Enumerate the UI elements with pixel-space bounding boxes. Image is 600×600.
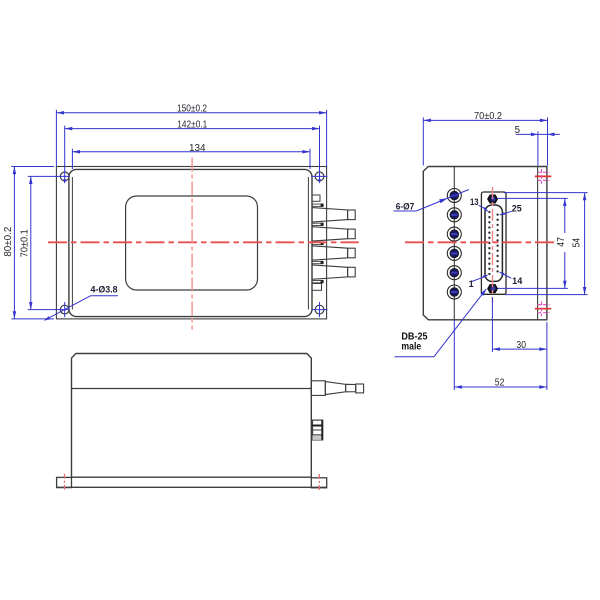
- blue centermark crosses on holes: [28, 126, 328, 318]
- top view main body outline: [69, 169, 312, 316]
- svg-text:4-Ø3.8: 4-Ø3.8: [91, 285, 118, 295]
- svg-text:70±0.1: 70±0.1: [19, 229, 30, 257]
- svg-text:14: 14: [512, 276, 522, 286]
- svg-text:134: 134: [189, 143, 206, 154]
- vertical red centerline top view: [191, 158, 193, 330]
- dimension 5 (wall): [516, 131, 560, 165]
- svg-text:6-Ø7: 6-Ø7: [396, 201, 414, 211]
- body left inner wall line: [71, 177, 73, 310]
- svg-text:80±0.2: 80±0.2: [3, 227, 14, 257]
- svg-text:1: 1: [469, 279, 474, 289]
- dimension 70±0.1: [30, 176, 32, 309]
- side view lid parting line: [72, 388, 312, 390]
- svg-text:54: 54: [571, 237, 582, 247]
- small down arrows at 142 extension ends: [63, 179, 66, 184]
- side view body outline: [72, 354, 312, 478]
- side view left foot: [57, 477, 72, 487]
- end view right wall inner line: [537, 167, 539, 320]
- fiber adapter tab 2: [312, 227, 355, 241]
- mounting hole bottom-left: [60, 305, 69, 314]
- fiber adapter tab 1: [312, 208, 355, 222]
- DB-25 vertical red centerline: [492, 187, 494, 303]
- end view body outline: [423, 167, 547, 320]
- strip division 2: [312, 223, 324, 226]
- svg-text:25: 25: [512, 204, 522, 214]
- FC adapter circle 2: [447, 208, 461, 222]
- dimension 150±0.2: [56, 110, 326, 167]
- FC adapter circle 5: [447, 266, 461, 280]
- svg-text:male: male: [401, 341, 421, 352]
- hole cross top-left: [28, 175, 70, 177]
- hole cross bottom-left: [28, 309, 70, 311]
- dimension 80±0.2: [11, 167, 54, 319]
- DB-25 mounting plate: [481, 192, 506, 294]
- fiber adapter tab 4: [312, 265, 355, 279]
- side view DB connector profile: [313, 420, 323, 440]
- end view horizontal red centerline: [405, 241, 556, 243]
- side view fiber boot mid section: [346, 384, 356, 392]
- strip division 1: [312, 204, 324, 207]
- DB-25 jack screw bottom: [488, 285, 498, 293]
- side view fiber boot taper: [325, 382, 345, 395]
- side view fiber boot tip: [356, 384, 364, 393]
- hidden flange hole bottom (magenta): [535, 301, 551, 316]
- horizontal red centerline top view: [48, 241, 359, 243]
- dimension 30: [492, 297, 547, 352]
- mounting hole bottom-right: [315, 305, 324, 314]
- dimension 47: [498, 198, 568, 288]
- connector strip small top rect: [312, 195, 320, 201]
- svg-text:13: 13: [470, 197, 479, 207]
- dimension 134: [72, 149, 310, 169]
- connector strip small bottom rect: [312, 284, 322, 291]
- body right inner wall line: [307, 177, 309, 310]
- FC adapter circle 3: [447, 227, 461, 241]
- end view panel line (circle column): [453, 167, 455, 320]
- side view right foot: [311, 478, 326, 488]
- dimension 52: [454, 320, 547, 390]
- strip division 5: [312, 280, 324, 283]
- FC adapter circle 6: [447, 285, 461, 299]
- FC adapter circle 1: [447, 189, 461, 203]
- side view base plate line: [57, 486, 327, 488]
- svg-text:70±0.2: 70±0.2: [474, 111, 502, 122]
- DB-25 pins column 25..14: [496, 213, 498, 272]
- side view fiber boot base: [311, 381, 325, 396]
- svg-text:30: 30: [516, 340, 526, 351]
- DB-25 jack screw top: [488, 195, 498, 203]
- mounting hole top-left: [60, 172, 69, 181]
- DB-25 shell: [485, 205, 502, 281]
- hole cross top-right: [311, 175, 328, 177]
- side view left foot hole centerline: [64, 474, 66, 491]
- svg-text:150±0.2: 150±0.2: [177, 104, 207, 115]
- fiber adapter tab 3: [312, 246, 355, 260]
- svg-text:142±0.1: 142±0.1: [177, 119, 207, 130]
- dimension 70±0.2 (end view): [423, 117, 547, 165]
- side view right foot hole centerline: [318, 474, 320, 491]
- strip division 4: [312, 261, 324, 264]
- dimension 142±0.1: [65, 128, 320, 130]
- FC adapter circle 4: [447, 246, 461, 260]
- hidden flange hole top (magenta): [535, 169, 551, 184]
- svg-text:52: 52: [495, 377, 505, 388]
- DB-25 pins column 13..1: [488, 211, 490, 275]
- dimension 54: [504, 193, 588, 295]
- svg-text:5: 5: [515, 125, 521, 136]
- svg-text:47: 47: [556, 237, 567, 247]
- lid recess rounded rectangle: [126, 196, 258, 290]
- mounting hole top-right: [315, 172, 324, 181]
- hole cross bottom-right: [312, 309, 328, 311]
- strip division 3: [312, 242, 324, 245]
- top view flange plate outline: [56, 167, 326, 319]
